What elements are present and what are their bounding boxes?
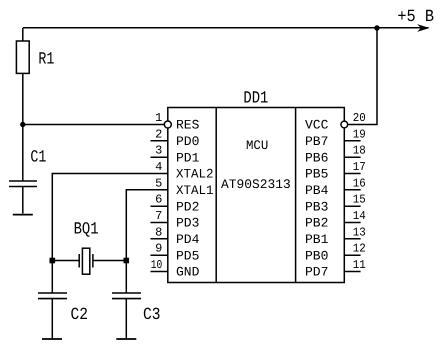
- svg-text:XTAL1: XTAL1: [176, 183, 214, 198]
- svg-text:PB0: PB0: [305, 248, 328, 263]
- svg-text:2: 2: [155, 127, 162, 141]
- svg-text:GND: GND: [176, 265, 200, 280]
- pin 7 PD3: [151, 209, 200, 231]
- pin 15 PB3: [305, 193, 366, 215]
- svg-text:+5 В: +5 В: [397, 8, 434, 27]
- svg-text:13: 13: [353, 225, 366, 239]
- wire XTAL2 branch: [52, 174, 168, 294]
- label +5 B: [397, 8, 434, 27]
- svg-text:15: 15: [353, 193, 366, 207]
- svg-text:14: 14: [353, 209, 366, 223]
- label MCU: [246, 138, 268, 153]
- svg-text:20: 20: [353, 111, 366, 125]
- wire +5V top rail: [23, 27, 429, 29]
- capacitor C3: [112, 293, 141, 299]
- IC DD1 body: [168, 108, 344, 283]
- svg-text:C1: C1: [30, 148, 46, 167]
- svg-text:PB4: PB4: [305, 183, 329, 198]
- power arrow: [417, 24, 429, 32]
- label C2: [71, 306, 89, 325]
- label C3: [143, 306, 161, 325]
- wire C2 to ground: [51, 299, 53, 339]
- crystal BQ1: [79, 248, 93, 274]
- pin 16 PB4: [305, 176, 366, 198]
- svg-text:PD7: PD7: [305, 265, 328, 280]
- label R1: [38, 50, 54, 69]
- svg-text:PB1: PB1: [305, 232, 329, 247]
- svg-text:RES: RES: [176, 118, 200, 133]
- wire C3 to ground: [125, 299, 127, 339]
- svg-text:9: 9: [155, 242, 162, 256]
- junction crystal right: [124, 258, 130, 264]
- capacitor C2: [38, 293, 67, 299]
- svg-text:18: 18: [353, 144, 366, 158]
- label DD1: [243, 89, 268, 108]
- junction crystal left: [50, 258, 56, 264]
- svg-text:PB6: PB6: [305, 150, 328, 165]
- ground: [13, 214, 33, 216]
- pin 6 PD2: [151, 193, 200, 215]
- pin 3 PD1: [151, 144, 200, 166]
- resistor R1: [16, 41, 29, 73]
- pin 9 PD5: [151, 242, 200, 264]
- wire rail to R1: [22, 28, 24, 41]
- wire to crystal right: [93, 260, 126, 262]
- wire reset net to pin 1: [23, 124, 164, 126]
- pin 20 VCC: [305, 111, 366, 133]
- pin 4 XTAL2: [155, 160, 213, 182]
- wire XTAL1 branch: [126, 190, 168, 293]
- svg-text:4: 4: [155, 160, 162, 174]
- ground: [42, 338, 62, 340]
- svg-text:PB3: PB3: [305, 199, 328, 214]
- pin 20 bubble: [341, 121, 348, 128]
- svg-text:12: 12: [353, 242, 366, 256]
- svg-text:AT90S2313: AT90S2313: [221, 177, 291, 192]
- label C1: [30, 148, 46, 167]
- pin 17 PB5: [305, 160, 366, 182]
- wire R1 to C1: [22, 73, 24, 181]
- pin 5 XTAL1: [155, 176, 214, 198]
- junction node +5V: [374, 25, 379, 30]
- junction node RES: [20, 122, 25, 127]
- svg-text:BQ1: BQ1: [74, 221, 99, 240]
- svg-text:PD5: PD5: [176, 248, 199, 263]
- capacitor C1: [9, 181, 37, 187]
- pin 2 PD0: [151, 127, 200, 149]
- svg-text:7: 7: [155, 209, 162, 223]
- svg-text:PD3: PD3: [176, 216, 199, 231]
- pin 8 PD4: [151, 225, 200, 247]
- pin 13 PB1: [305, 225, 366, 247]
- svg-text:C2: C2: [71, 306, 89, 325]
- wire VCC drop: [348, 28, 377, 125]
- pin 19 PB7: [305, 127, 366, 149]
- svg-text:19: 19: [353, 127, 366, 141]
- svg-text:XTAL2: XTAL2: [176, 167, 214, 182]
- label BQ1: [74, 221, 99, 240]
- svg-text:11: 11: [353, 258, 366, 272]
- svg-text:PB2: PB2: [305, 216, 328, 231]
- svg-text:PD2: PD2: [176, 199, 199, 214]
- svg-text:6: 6: [155, 193, 162, 207]
- ground: [116, 338, 136, 340]
- value AT90S2313: [221, 177, 291, 192]
- svg-text:8: 8: [155, 225, 162, 239]
- svg-text:MCU: MCU: [246, 138, 268, 153]
- pin 11 PD7: [305, 258, 366, 280]
- svg-text:PB5: PB5: [305, 167, 328, 182]
- pin 18 PB6: [305, 144, 366, 166]
- pin 1 RES: [155, 111, 200, 133]
- pin 1 inversion bubble: [164, 121, 171, 128]
- pin 10 GND: [151, 258, 200, 280]
- pin 12 PB0: [305, 242, 366, 264]
- wire C1 to ground: [22, 187, 24, 214]
- svg-text:R1: R1: [38, 50, 54, 69]
- svg-text:3: 3: [155, 144, 162, 158]
- pin 14 PB2: [305, 209, 366, 231]
- svg-text:PD0: PD0: [176, 134, 199, 149]
- svg-text:10: 10: [151, 258, 163, 272]
- wire to crystal left: [52, 260, 79, 262]
- svg-text:1: 1: [155, 111, 162, 125]
- svg-text:VCC: VCC: [305, 118, 329, 133]
- svg-text:DD1: DD1: [243, 89, 268, 108]
- svg-text:C3: C3: [143, 306, 161, 325]
- svg-text:5: 5: [155, 176, 162, 190]
- svg-text:PD1: PD1: [176, 150, 200, 165]
- svg-text:16: 16: [353, 176, 366, 190]
- svg-text:PD4: PD4: [176, 232, 200, 247]
- svg-text:17: 17: [353, 160, 366, 174]
- svg-text:PB7: PB7: [305, 134, 328, 149]
